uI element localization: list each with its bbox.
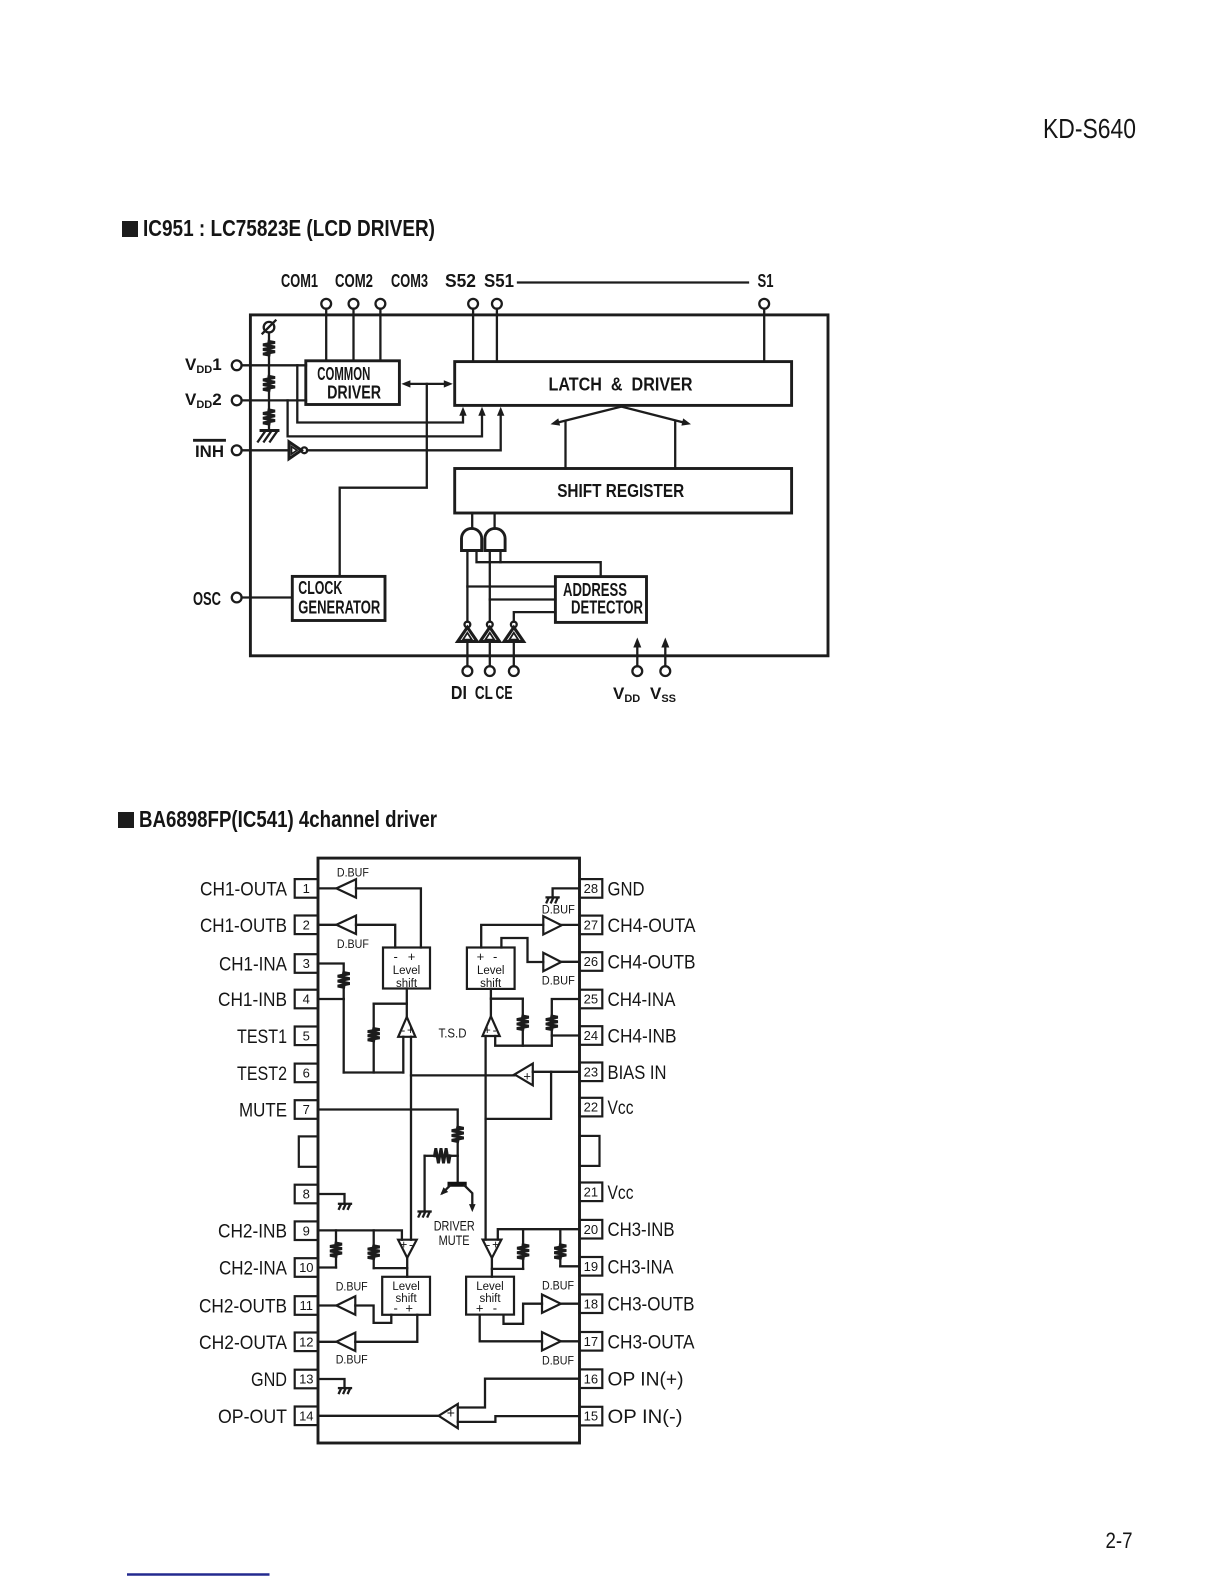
resistor mute xyxy=(452,1127,464,1141)
wire xyxy=(493,513,495,529)
svg-text:VDD1: VDD1 xyxy=(185,355,222,376)
svg-text:6: 6 xyxy=(303,1066,310,1081)
wire xyxy=(268,424,270,430)
wire level shift + to buffer12 xyxy=(355,1315,417,1342)
ground xyxy=(339,1203,351,1205)
svg-text:-: - xyxy=(394,949,398,964)
resistor R2 xyxy=(263,376,275,390)
wire VDD1 xyxy=(242,364,306,366)
wire level shift to buffer26 xyxy=(501,938,543,962)
wire OP out to pin14 xyxy=(318,1415,439,1417)
resistor xyxy=(368,1246,380,1259)
svg-text:9: 9 xyxy=(303,1223,310,1238)
pin terminal S52 xyxy=(468,299,478,309)
pin 7 xyxy=(295,1100,318,1119)
wire level shift to amp CH4 xyxy=(490,989,492,1016)
wire DI to G1 xyxy=(466,551,468,622)
wire OSC xyxy=(242,596,293,598)
wire INH feedback to latch xyxy=(307,411,501,450)
block COMMON DRIVER xyxy=(306,361,400,405)
svg-text:CL: CL xyxy=(475,683,493,703)
wire pin16 OP IN(+) xyxy=(458,1379,580,1408)
pin label INH (overline) xyxy=(195,439,225,442)
pin 11 xyxy=(295,1296,318,1315)
buffer D.BUF CH4-OUTA xyxy=(543,916,561,934)
svg-text:D.BUF: D.BUF xyxy=(337,937,369,951)
wire xyxy=(268,391,270,410)
resistor driver mute xyxy=(435,1148,451,1163)
wire buffer to pin17 xyxy=(561,1340,580,1342)
pin 15 xyxy=(580,1407,603,1426)
svg-text:BIAS IN: BIAS IN xyxy=(608,1063,667,1084)
level shift CH2 xyxy=(382,1277,430,1315)
pin 3 xyxy=(295,954,318,973)
ground xyxy=(547,896,559,898)
wire pin28 GND xyxy=(553,888,580,897)
wire xyxy=(522,1229,524,1245)
svg-text:CH2-OUTA: CH2-OUTA xyxy=(199,1333,287,1354)
buffer D.BUF CH4-OUTB xyxy=(543,953,561,971)
wire level shift - to buffer11 xyxy=(355,1306,391,1323)
buffer D.BUF CH3-OUTB xyxy=(542,1295,561,1313)
svg-text:7: 7 xyxy=(303,1102,310,1117)
svg-text:19: 19 xyxy=(584,1259,598,1274)
pin terminal INH xyxy=(232,445,242,455)
ground xyxy=(419,1210,431,1212)
svg-text:+: + xyxy=(407,1023,414,1037)
svg-text:D.BUF: D.BUF xyxy=(337,866,369,880)
pin terminal COM3 xyxy=(376,299,386,309)
wire pin7 MUTE xyxy=(318,1110,458,1128)
AND gate G1 xyxy=(462,528,482,550)
svg-text:Vcc: Vcc xyxy=(608,1098,634,1119)
wire amp out to level shift xyxy=(491,1258,493,1277)
svg-text:CH4-OUTA: CH4-OUTA xyxy=(608,916,696,937)
svg-text:IC951 : LC75823E (LCD DRIVER): IC951 : LC75823E (LCD DRIVER) xyxy=(143,215,435,241)
op-amp CH3 driver (inverted) xyxy=(483,1240,502,1258)
pin terminal VDD1 xyxy=(232,360,242,370)
wire VDD2 xyxy=(242,399,306,401)
svg-text:LATCH & DRIVER: LATCH & DRIVER xyxy=(549,375,693,395)
wire xyxy=(551,1030,553,1046)
svg-text:18: 18 xyxy=(584,1296,598,1311)
resistor xyxy=(554,1245,566,1259)
level shift CH1 xyxy=(383,948,430,989)
svg-text:-: - xyxy=(486,1238,490,1252)
svg-text:GENERATOR: GENERATOR xyxy=(298,598,380,618)
wire pin4 CH1-INB xyxy=(318,998,344,1000)
wire xyxy=(522,1030,524,1046)
svg-text:22: 22 xyxy=(584,1100,598,1115)
svg-text:+: + xyxy=(523,1069,531,1084)
svg-text:Vcc: Vcc xyxy=(608,1183,634,1204)
svg-text:CH2-OUTB: CH2-OUTB xyxy=(199,1297,287,1318)
svg-text:CH2-INA: CH2-INA xyxy=(219,1259,287,1280)
wire xyxy=(522,1258,524,1269)
svg-text:KD-S640: KD-S640 xyxy=(1043,113,1136,144)
block CLOCK GENERATOR xyxy=(292,576,385,620)
wire bias out xyxy=(411,1074,515,1076)
section header BA6898FP(IC541) 4channel driver xyxy=(118,812,134,828)
svg-text:D.BUF: D.BUF xyxy=(542,1279,574,1293)
IC541 package outline xyxy=(318,858,580,1443)
pin terminal COM2 xyxy=(349,299,359,309)
wire COM1 xyxy=(325,309,327,361)
wire COM2 xyxy=(352,309,354,361)
transistor driver mute xyxy=(448,1182,467,1187)
svg-text:8: 8 xyxy=(303,1187,310,1202)
wire amp- rail xyxy=(484,1036,486,1240)
svg-text:CH1-OUTA: CH1-OUTA xyxy=(200,879,287,900)
wire xyxy=(335,1230,337,1243)
wire VDD2 feedback to latch xyxy=(288,400,482,436)
wire xyxy=(373,1259,375,1269)
svg-text:15: 15 xyxy=(584,1409,598,1424)
wire pin3/4 node down to TEST2 row xyxy=(343,999,345,1073)
buffer D.BUF CH3-OUTA xyxy=(542,1332,561,1350)
svg-text:OP-OUT: OP-OUT xyxy=(218,1407,287,1428)
svg-text:OSC: OSC xyxy=(193,589,221,609)
svg-text:TEST1: TEST1 xyxy=(237,1027,287,1048)
svg-text:CH4-INB: CH4-INB xyxy=(608,1027,677,1048)
wire DI to address detector xyxy=(467,585,555,587)
wire pin15 OP IN(-) xyxy=(458,1416,580,1422)
svg-text:+: + xyxy=(477,949,485,964)
pin 10 xyxy=(295,1258,318,1277)
wire pin9 CH2-INB xyxy=(318,1230,402,1239)
buffer D.BUF CH1-OUTA xyxy=(336,879,356,897)
level shift CH3 xyxy=(466,1277,514,1315)
svg-text:GND: GND xyxy=(608,879,645,900)
IC951 block outline xyxy=(250,315,828,656)
wire amp+ input rail (bias) xyxy=(410,1037,412,1240)
svg-text:14: 14 xyxy=(299,1408,313,1423)
svg-text:DRIVER: DRIVER xyxy=(327,383,381,403)
wire xyxy=(450,1155,458,1157)
svg-text:10: 10 xyxy=(299,1260,313,1275)
supply arrow VSS xyxy=(664,644,666,666)
svg-text:17: 17 xyxy=(584,1334,598,1349)
inverter (INH buffer) xyxy=(289,442,301,459)
svg-text:D.BUF: D.BUF xyxy=(336,1352,368,1366)
pin 26 xyxy=(580,952,603,971)
pin 17 xyxy=(580,1332,603,1351)
pin 21 xyxy=(580,1183,603,1202)
resistor xyxy=(546,1016,558,1030)
input buffer CL xyxy=(487,622,493,628)
svg-text:+: + xyxy=(447,1405,455,1421)
wire buffer2 to level shift xyxy=(356,925,395,948)
pin 14 xyxy=(295,1407,318,1426)
ground xyxy=(261,429,278,432)
svg-text:TEST2: TEST2 xyxy=(237,1064,287,1085)
wire amp- input xyxy=(402,1037,404,1073)
svg-text:+: + xyxy=(408,949,416,964)
level shift CH4 xyxy=(467,948,515,989)
pin 6 xyxy=(295,1064,318,1083)
wire S52 xyxy=(472,309,474,362)
wire gate enable G2 stub xyxy=(499,551,501,563)
svg-text:MUTE: MUTE xyxy=(439,1232,470,1248)
pin terminal VSS xyxy=(660,666,670,676)
pin terminal S1 xyxy=(759,299,769,309)
wire S1 xyxy=(763,309,765,362)
wire buffer to pin26 xyxy=(561,961,579,963)
pin 27 xyxy=(580,916,603,935)
op-amp CH2 driver (inverted) xyxy=(398,1240,417,1258)
wire xyxy=(373,1041,375,1073)
wire buffer1 to level shift xyxy=(356,888,421,947)
wire to amp output xyxy=(492,1268,523,1270)
wire gate enable xyxy=(477,551,601,577)
resistor R3 xyxy=(263,410,275,424)
pin terminal DI xyxy=(463,666,473,676)
svg-text:CH1-OUTB: CH1-OUTB xyxy=(200,916,287,937)
wire level shift to buffer27 xyxy=(481,925,543,948)
svg-text:CH1-INB: CH1-INB xyxy=(218,990,287,1011)
svg-text:16: 16 xyxy=(584,1371,598,1386)
heat tab left xyxy=(299,1136,318,1166)
svg-text:S51: S51 xyxy=(484,271,514,291)
svg-text:21: 21 xyxy=(584,1184,598,1199)
wire xyxy=(373,1230,375,1245)
svg-text:1: 1 xyxy=(303,881,310,896)
pin 8 xyxy=(295,1185,318,1204)
buffer D.BUF CH1-OUTB xyxy=(336,916,356,934)
svg-text:-: - xyxy=(493,949,497,964)
svg-text:CE: CE xyxy=(496,683,513,703)
svg-text:Level: Level xyxy=(477,965,505,977)
svg-text:BA6898FP(IC541) 4channel drive: BA6898FP(IC541) 4channel driver xyxy=(139,806,437,832)
wire buffer to pin27 xyxy=(562,924,580,926)
svg-text:+: + xyxy=(492,1238,499,1252)
buffer D.BUF CH2-OUTA xyxy=(336,1333,355,1351)
svg-text:S1: S1 xyxy=(758,271,774,291)
wire amp out to level shift xyxy=(406,1258,408,1277)
pin 13 xyxy=(295,1370,318,1389)
wire S51 to S1 xyxy=(518,281,748,283)
svg-text:D.BUF: D.BUF xyxy=(542,1353,574,1367)
svg-text:D.BUF: D.BUF xyxy=(542,974,575,988)
wire CL xyxy=(489,641,491,666)
svg-text:DETECTOR: DETECTOR xyxy=(571,598,643,618)
pin 5 xyxy=(295,1027,318,1046)
svg-text:+: + xyxy=(476,1300,484,1315)
wire level shift to amp CH1 xyxy=(406,989,408,1017)
svg-text:23: 23 xyxy=(584,1064,598,1079)
bus arrow latch-shift left branch xyxy=(559,407,622,423)
svg-text:Level: Level xyxy=(393,965,421,977)
input buffer CE xyxy=(511,622,517,628)
svg-text:VDD: VDD xyxy=(613,684,640,705)
buffer BIAS xyxy=(515,1064,533,1086)
svg-text:28: 28 xyxy=(584,881,598,896)
wire pin13 xyxy=(318,1379,345,1388)
pin 16 xyxy=(580,1369,603,1388)
svg-text:CH2-INB: CH2-INB xyxy=(218,1222,287,1243)
wire to ground xyxy=(425,1155,435,1157)
pin 1 xyxy=(295,879,318,898)
svg-text:-: - xyxy=(394,1300,398,1315)
block ADDRESS DETECTOR xyxy=(555,577,646,623)
svg-text:DI: DI xyxy=(451,683,467,703)
svg-text:24: 24 xyxy=(584,1028,598,1043)
resistor chain top wire xyxy=(268,333,270,342)
supply arrow VDD xyxy=(636,644,638,666)
svg-text:Level: Level xyxy=(392,1281,420,1293)
wire pin2 xyxy=(318,924,336,926)
svg-text:GND: GND xyxy=(251,1370,287,1391)
wire DI xyxy=(466,641,468,666)
wire CE xyxy=(513,641,515,666)
svg-text:+: + xyxy=(405,1300,413,1315)
resistor xyxy=(330,1243,342,1256)
svg-text:11: 11 xyxy=(300,1298,314,1313)
svg-text:12: 12 xyxy=(299,1334,313,1349)
op-amp CH4 driver xyxy=(483,1016,500,1036)
pin 23 xyxy=(580,1063,603,1082)
wire xyxy=(268,355,270,376)
resistor xyxy=(517,1245,529,1259)
pin 2 xyxy=(295,916,318,935)
pin terminal COM1 xyxy=(321,299,331,309)
block SHIFT REGISTER xyxy=(455,469,792,514)
svg-text:S52: S52 xyxy=(445,271,476,291)
wire level shift + to buffer17 xyxy=(480,1315,542,1342)
wire pin3 CH1-INA xyxy=(318,964,344,973)
svg-text:26: 26 xyxy=(584,954,598,969)
wire xyxy=(335,1256,337,1267)
wire xyxy=(457,1142,459,1183)
wire pin23 BIAS IN xyxy=(533,1071,580,1073)
op-amp OP xyxy=(439,1404,458,1428)
block LATCH & DRIVER xyxy=(455,362,792,406)
svg-text:-: - xyxy=(493,1023,497,1037)
svg-text:COM3: COM3 xyxy=(391,271,428,291)
wire xyxy=(343,987,345,999)
svg-text:CH4-OUTB: CH4-OUTB xyxy=(608,953,696,974)
wire CL to address detector xyxy=(490,598,556,600)
AND gate G2 xyxy=(485,528,505,550)
svg-text:SHIFT REGISTER: SHIFT REGISTER xyxy=(557,481,684,501)
wire pin19 CH3-INA xyxy=(560,1265,579,1267)
op-amp CH1 driver xyxy=(398,1017,415,1037)
resistor CH1-INA xyxy=(338,973,350,988)
buffer D.BUF CH2-OUTB xyxy=(336,1296,355,1314)
svg-text:D.BUF: D.BUF xyxy=(336,1279,368,1293)
pin terminal VDD2 xyxy=(232,396,242,406)
wire pin12 xyxy=(318,1341,336,1343)
svg-text:COM1: COM1 xyxy=(281,271,318,291)
svg-text:-: - xyxy=(409,1238,413,1252)
pin 12 xyxy=(295,1333,318,1352)
svg-text:2-7: 2-7 xyxy=(1106,1528,1133,1553)
svg-text:25: 25 xyxy=(584,992,598,1007)
wire buffer to pin18 xyxy=(561,1303,580,1305)
heat tab right xyxy=(580,1136,600,1166)
wire clock xyxy=(340,384,427,577)
oscillator terminal (crossed circle) xyxy=(264,322,275,333)
svg-text:MUTE: MUTE xyxy=(239,1101,287,1122)
wire pin10 CH2-INA xyxy=(318,1266,336,1268)
bus arrow (COMMON DRIVER - LATCH & DRIVER) xyxy=(407,383,446,385)
svg-text:CH1-INA: CH1-INA xyxy=(219,955,287,976)
svg-text:4: 4 xyxy=(303,992,310,1007)
pin 4 xyxy=(295,990,318,1009)
resistor xyxy=(368,1029,380,1041)
wire INH to inverter xyxy=(242,449,289,451)
pin terminal S51 xyxy=(492,299,502,309)
pin 18 xyxy=(580,1294,603,1313)
svg-text:COM2: COM2 xyxy=(335,271,373,291)
wire VDD1 feedback to latch xyxy=(297,365,463,422)
pin 25 xyxy=(580,990,603,1009)
wire xyxy=(471,513,473,529)
svg-text:CH3-INB: CH3-INB xyxy=(608,1220,675,1241)
svg-text:VDD2: VDD2 xyxy=(185,390,222,411)
svg-text:27: 27 xyxy=(584,918,598,933)
pin terminal VDD xyxy=(632,666,642,676)
wire S51 xyxy=(496,309,498,362)
pin 22 xyxy=(580,1098,603,1117)
svg-text:VSS: VSS xyxy=(650,684,676,705)
svg-text:INH: INH xyxy=(195,442,224,461)
wire pin25 CH4-INA xyxy=(552,999,580,1016)
svg-text:20: 20 xyxy=(584,1222,598,1237)
section header IC951 : LC75823E (LCD DRIVER) xyxy=(122,221,138,237)
pin 9 xyxy=(295,1221,318,1240)
wire pin1 xyxy=(318,887,336,889)
wire to amp output xyxy=(374,1267,408,1269)
wire TEST2 row xyxy=(344,1071,404,1073)
svg-text:13: 13 xyxy=(299,1372,313,1387)
svg-text:5: 5 xyxy=(303,1028,310,1043)
pin terminal CL xyxy=(485,666,495,676)
wire COM3 xyxy=(379,309,381,361)
wire bias branch xyxy=(486,1072,551,1119)
svg-text:D.BUF: D.BUF xyxy=(542,903,575,917)
pin 28 xyxy=(580,879,603,898)
svg-text:T.S.D: T.S.D xyxy=(439,1027,467,1041)
svg-text:CLOCK: CLOCK xyxy=(298,578,342,598)
svg-text:+: + xyxy=(484,1023,491,1037)
wire pin11 xyxy=(318,1304,336,1306)
footer rule (blue) xyxy=(127,1573,270,1576)
svg-text:3: 3 xyxy=(303,956,310,971)
pin 19 xyxy=(580,1257,603,1276)
pin 24 xyxy=(580,1026,603,1045)
svg-text:-: - xyxy=(401,1023,405,1037)
svg-text:CH3-INA: CH3-INA xyxy=(608,1257,674,1278)
ground xyxy=(339,1387,351,1389)
resistor R1 xyxy=(263,341,275,355)
resistor xyxy=(517,1016,529,1030)
svg-text:OP IN(-): OP IN(-) xyxy=(608,1407,683,1428)
svg-text:2: 2 xyxy=(303,917,310,932)
pin 20 xyxy=(580,1220,603,1239)
svg-text:CH3-OUTA: CH3-OUTA xyxy=(608,1332,695,1353)
pin terminal OSC xyxy=(232,593,242,603)
input buffer DI xyxy=(465,622,471,628)
svg-text:CH4-INA: CH4-INA xyxy=(608,990,676,1011)
wire pin20 CH3-INB xyxy=(498,1229,580,1239)
wire xyxy=(559,1229,561,1245)
wire CE to address detector xyxy=(514,612,556,622)
bus arrow latch-shift right branch xyxy=(621,407,683,423)
wire branch to resistor xyxy=(374,1003,407,1005)
svg-text:-: - xyxy=(493,1300,497,1315)
wire pin8 xyxy=(318,1194,345,1203)
